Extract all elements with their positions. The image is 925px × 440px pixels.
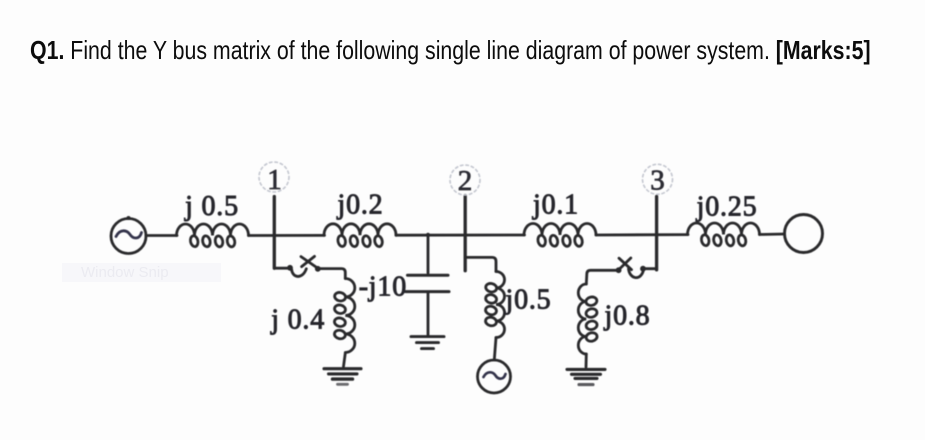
svg-text:j0.2: j0.2 — [337, 190, 384, 221]
inductor L1 j0.5 (series, bus1 left) — [177, 224, 249, 248]
wire L4 to G2 — [760, 233, 785, 236]
svg-text:j0.8: j0.8 — [604, 301, 651, 332]
bus 3 bar — [655, 197, 658, 270]
svg-text:j0.5: j0.5 — [505, 285, 552, 316]
watermark Window Snip — [62, 263, 221, 282]
svg-text:2: 2 — [458, 165, 473, 197]
bus node 2 circled label — [450, 165, 480, 197]
inductor L4 j0.25 (bus3 right) — [688, 223, 760, 247]
wire G1 to L1 — [146, 234, 177, 237]
svg-text:j0.1: j0.1 — [532, 190, 579, 221]
wire L6 to G3 — [494, 338, 496, 360]
svg-text:j0.25: j0.25 — [696, 192, 758, 223]
question title — [30, 35, 871, 66]
wire S1 to L5 — [320, 269, 345, 279]
wire bus1 to switch S1 — [276, 267, 288, 270]
ground (capacitor) — [411, 337, 444, 349]
generator G3 (bus2 source) — [478, 360, 511, 393]
svg-text:3: 3 — [650, 164, 665, 196]
svg-text:j 0.4: j 0.4 — [270, 305, 325, 336]
switch S1 (open disconnect at bus 1) — [287, 256, 321, 276]
inductor L6 j0.5 (bus2 generator branch) — [485, 272, 505, 338]
wire S2 to L7 — [586, 270, 616, 284]
wire L3 to L4 across bus 3 — [596, 233, 688, 236]
wire L7 to ground — [585, 354, 588, 367]
bus 1 bar — [273, 197, 276, 269]
generator G1 (left source) — [111, 216, 146, 254]
svg-text:j 0.5: j 0.5 — [184, 191, 239, 222]
capacitor C1 -j10 (shunt) — [406, 275, 450, 291]
wire L2 to L3 across bus 2 — [396, 234, 525, 237]
svg-text:-j10: -j10 — [359, 272, 407, 303]
ground (bus3 shunt reactor) — [567, 369, 605, 384]
wire L1 to L2 across bus 1 — [249, 234, 325, 237]
inductor L5 j0.4 (shunt at bus 1) — [334, 279, 355, 353]
generator G2 (right source, plain circle) — [785, 215, 823, 253]
bus 2 bar — [464, 196, 467, 271]
wire L5 to ground — [344, 353, 346, 367]
wire main line to capacitor C1 — [427, 236, 430, 273]
svg-text:1: 1 — [267, 164, 282, 196]
inductor L3 j0.1 (bus2-bus3 line) — [524, 224, 596, 248]
inductor L2 j0.2 (bus1-bus2 line) — [324, 224, 396, 248]
bus node 3 circled label — [643, 164, 673, 196]
wire bus3 to switch S2 — [646, 267, 657, 270]
wire bus2 to L6 — [465, 257, 496, 271]
switch S2 (open disconnect at bus 3) — [616, 258, 646, 278]
ground (bus1 shunt reactor) — [324, 369, 361, 385]
node: capacitor tap junction — [426, 233, 430, 237]
wire C1 to ground — [427, 293, 430, 335]
inductor L7 j0.8 (shunt at bus 3) — [578, 284, 598, 354]
bus node 1 circled label — [259, 162, 289, 196]
